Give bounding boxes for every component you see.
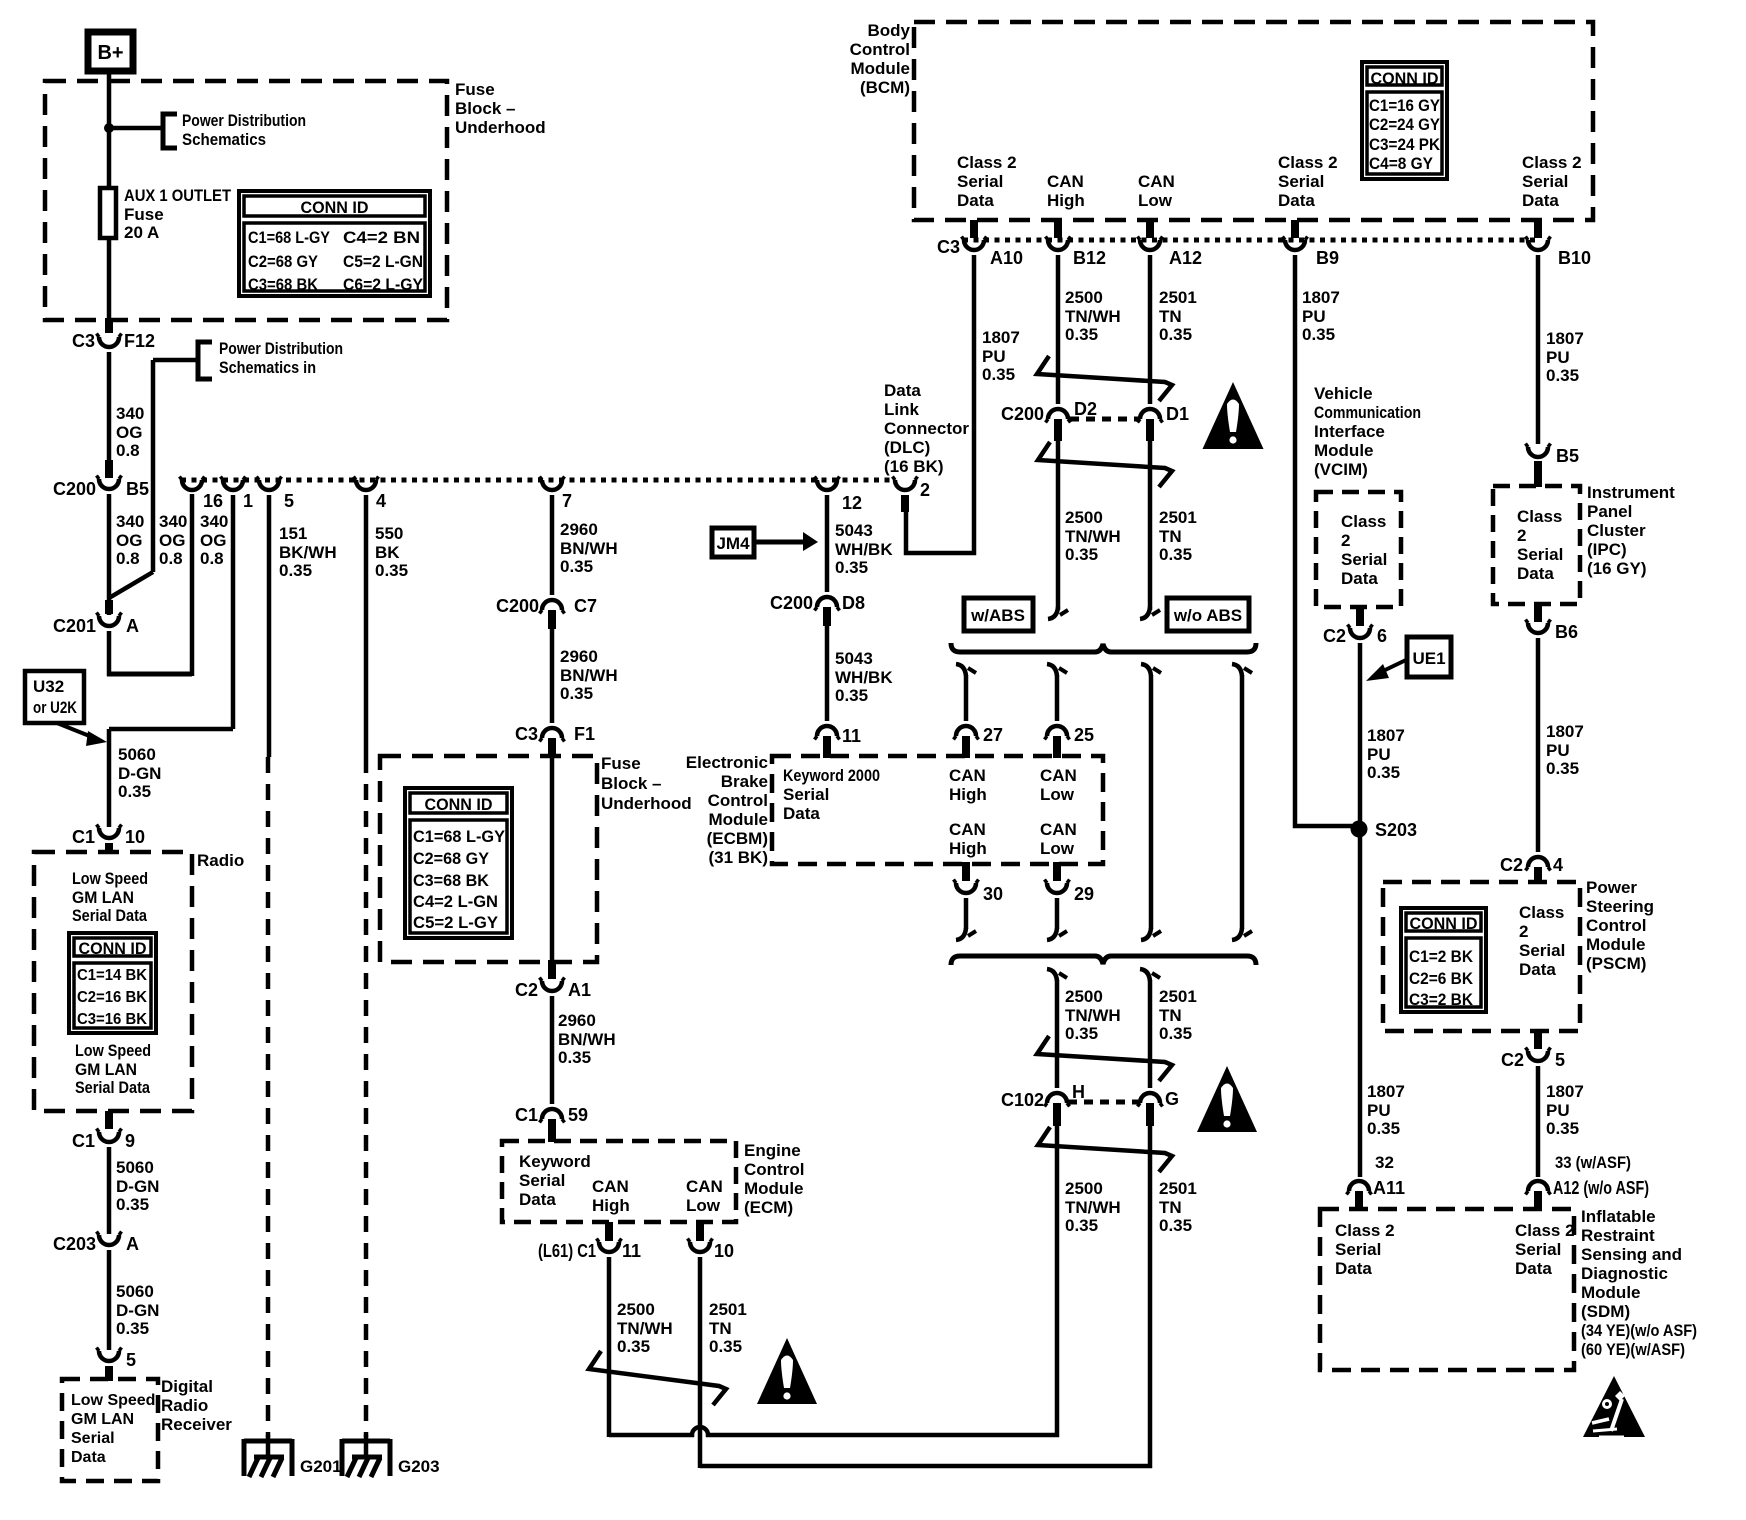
engine control module box (502, 1141, 736, 1222)
svg-text:Power Distribution: Power Distribution (182, 111, 306, 130)
w/ABS box (964, 598, 1033, 631)
wire to power distribution bracket (109, 126, 162, 131)
svg-text:0.35: 0.35 (1302, 325, 1335, 344)
svg-text:BN/WH: BN/WH (560, 666, 618, 685)
svg-text:High: High (949, 785, 987, 804)
svg-text:Diagnostic: Diagnostic (1581, 1264, 1668, 1283)
svg-text:Schematics in: Schematics in (219, 358, 316, 377)
svg-text:Body: Body (868, 21, 911, 40)
wire C1 9 to C203 (107, 1147, 112, 1234)
svg-text:Data: Data (1517, 564, 1554, 583)
svg-text:WH/BK: WH/BK (835, 540, 893, 559)
svg-text:CAN: CAN (1040, 820, 1077, 839)
svg-text:2960: 2960 (560, 647, 598, 666)
twisted pair crossover below C102 (1038, 1127, 1172, 1172)
BCM pin B10 (1534, 220, 1542, 238)
svg-text:C4=8 GY: C4=8 GY (1369, 155, 1433, 173)
svg-text:(IPC): (IPC) (1587, 540, 1627, 559)
svg-text:11: 11 (842, 726, 861, 746)
DLC pin 5 (259, 480, 279, 490)
svg-text:27: 27 (983, 725, 1003, 745)
svg-text:Data: Data (71, 1449, 106, 1466)
ground G203 (342, 1439, 390, 1444)
wire B+ to fuse (107, 71, 112, 190)
svg-text:Serial: Serial (71, 1430, 115, 1447)
svg-text:BN/WH: BN/WH (560, 539, 618, 558)
svg-text:0.35: 0.35 (116, 1319, 149, 1338)
svg-text:2500: 2500 (1065, 288, 1103, 307)
svg-text:C4=2 L-GN: C4=2 L-GN (413, 893, 498, 911)
svg-text:Data: Data (519, 1190, 556, 1209)
connector C200 B5 (99, 479, 119, 489)
svg-text:Module: Module (1581, 1283, 1641, 1302)
connector C3 F12 (99, 337, 119, 347)
svg-text:Data: Data (1515, 1259, 1552, 1278)
svg-text:Module: Module (1586, 935, 1646, 954)
ground G201 (244, 1439, 292, 1444)
svg-text:OG: OG (159, 531, 185, 550)
svg-text:1807: 1807 (1546, 1082, 1584, 1101)
svg-text:Digital: Digital (161, 1377, 213, 1396)
svg-text:0.8: 0.8 (116, 549, 140, 568)
svg-text:Power: Power (1586, 878, 1637, 897)
wire BCM B10 down (1536, 255, 1541, 444)
svg-text:B5: B5 (1556, 446, 1579, 466)
svg-text:OG: OG (116, 423, 142, 442)
svg-text:32: 32 (1375, 1153, 1394, 1172)
ECM pin 10 (696, 1222, 704, 1241)
svg-text:9: 9 (125, 1131, 135, 1151)
woABS bypass wire 1 (1141, 664, 1151, 676)
wire BCM B12 down (1056, 255, 1061, 404)
svg-text:0.35: 0.35 (375, 561, 408, 580)
svg-text:Module: Module (709, 810, 769, 829)
fuse block underhood box 2 (380, 756, 597, 962)
svg-text:PU: PU (982, 347, 1006, 366)
svg-text:C200: C200 (496, 596, 539, 616)
svg-text:Interface: Interface (1314, 422, 1385, 441)
wire DLC pin1 to radio C1 10 (231, 495, 236, 729)
svg-text:(ECBM): (ECBM) (707, 829, 768, 848)
svg-text:Fuse: Fuse (124, 205, 164, 224)
svg-text:2501: 2501 (1159, 1179, 1197, 1198)
svg-text:C2=6 BK: C2=6 BK (1409, 970, 1473, 988)
svg-text:BN/WH: BN/WH (558, 1030, 616, 1049)
connector C200 C7 (542, 600, 562, 610)
wire through fuse block 2 (550, 756, 555, 962)
svg-text:340: 340 (159, 512, 187, 531)
svg-text:GM LAN: GM LAN (75, 1060, 137, 1079)
svg-text:Data: Data (1519, 960, 1556, 979)
svg-text:Fuse: Fuse (601, 754, 641, 773)
DLC pin 7 (542, 480, 562, 490)
svg-text:CAN: CAN (1040, 766, 1077, 785)
svg-text:Instrument: Instrument (1587, 483, 1675, 502)
wire C2 6 down to S203 (1358, 643, 1363, 1177)
svg-text:w/ABS: w/ABS (970, 606, 1025, 625)
svg-text:H: H (1072, 1082, 1085, 1102)
svg-text:D2: D2 (1074, 399, 1097, 419)
ECBM pin 11 connector (817, 726, 837, 736)
svg-text:1807: 1807 (1367, 1082, 1405, 1101)
svg-text:Class 2: Class 2 (1515, 1221, 1575, 1240)
svg-text:C1=16 GY: C1=16 GY (1369, 97, 1440, 115)
svg-text:C1=68 L-GY: C1=68 L-GY (413, 828, 505, 846)
JM4 arrow (754, 540, 804, 545)
svg-text:G203: G203 (398, 1457, 440, 1476)
svg-text:Class: Class (1519, 903, 1564, 922)
wire C201 to DLC pin 16 riser (107, 631, 112, 676)
BCM pin B9 (1291, 220, 1299, 238)
svg-text:C200: C200 (53, 479, 96, 499)
svg-text:Low: Low (1138, 191, 1173, 210)
svg-text:5060: 5060 (118, 745, 156, 764)
twisted pair crossover below C200 D2 D1 (1038, 442, 1172, 487)
svg-text:High: High (949, 839, 987, 858)
svg-text:Steering: Steering (1586, 897, 1654, 916)
svg-text:5043: 5043 (835, 649, 873, 668)
svg-text:0.8: 0.8 (116, 441, 140, 460)
svg-text:A12: A12 (1169, 248, 1202, 268)
svg-text:Data: Data (1522, 191, 1559, 210)
svg-text:(31 BK): (31 BK) (708, 848, 768, 867)
svg-text:Keyword 2000: Keyword 2000 (783, 766, 880, 785)
warning triangle near ECM (757, 1338, 817, 1404)
radio out stub to C1 9 (105, 1111, 113, 1129)
svg-text:0.35: 0.35 (1367, 763, 1400, 782)
svg-text:BK: BK (375, 543, 400, 562)
twisted pair crossover above C102 (1037, 1036, 1172, 1081)
svg-text:TN/WH: TN/WH (1065, 1006, 1121, 1025)
svg-text:0.35: 0.35 (1065, 1216, 1098, 1235)
svg-text:2500: 2500 (1065, 1179, 1103, 1198)
wire DLC pin 12 down (825, 495, 830, 592)
DLC connector dotted bus (181, 478, 895, 483)
wire DLC pin 5 to G201 (267, 495, 272, 757)
svg-text:UE1: UE1 (1412, 649, 1445, 668)
svg-text:Serial: Serial (1517, 545, 1563, 564)
svg-text:0.8: 0.8 (159, 549, 183, 568)
svg-text:CAN: CAN (686, 1177, 723, 1196)
svg-text:(16 GY): (16 GY) (1587, 559, 1647, 578)
svg-text:2501: 2501 (1159, 987, 1197, 1006)
connector 5 digital radio receiver (99, 1351, 119, 1361)
svg-text:Electronic: Electronic (686, 753, 768, 772)
wire A1 to C1 59 (550, 996, 555, 1104)
svg-text:CAN: CAN (949, 820, 986, 839)
svg-text:Serial: Serial (519, 1171, 565, 1190)
svg-text:Serial Data: Serial Data (72, 906, 147, 925)
JM4 box (712, 528, 754, 557)
svg-text:Underhood: Underhood (601, 794, 692, 813)
svg-text:Data: Data (1341, 569, 1378, 588)
svg-text:2: 2 (1519, 922, 1528, 941)
svg-text:C200: C200 (770, 593, 813, 613)
IPC box (1493, 486, 1580, 604)
svg-text:0.35: 0.35 (1065, 545, 1098, 564)
BCM pin A12 (1146, 220, 1154, 238)
conn id table BCM (1362, 62, 1447, 179)
inflatable restraint SDM box (1320, 1209, 1574, 1370)
svg-text:PU: PU (1367, 1101, 1391, 1120)
wire ECM 11 down (607, 1257, 612, 1437)
svg-text:4: 4 (1553, 855, 1563, 875)
svg-text:Engine: Engine (744, 1141, 801, 1160)
svg-text:C3=16 BK: C3=16 BK (77, 1011, 147, 1028)
svg-text:CONN ID: CONN ID (1410, 914, 1478, 933)
BCM C3 dotted connector line (963, 238, 1540, 243)
warning triangle near C102 (1197, 1066, 1257, 1132)
svg-text:0.35: 0.35 (709, 1337, 742, 1356)
svg-text:Block –: Block – (455, 99, 515, 118)
svg-text:A: A (126, 616, 139, 636)
svg-text:2960: 2960 (558, 1011, 596, 1030)
connector C200 D8 (817, 597, 837, 607)
svg-text:TN/WH: TN/WH (1065, 307, 1121, 326)
svg-text:0.35: 0.35 (1546, 366, 1579, 385)
svg-text:A10: A10 (990, 248, 1023, 268)
svg-text:Control: Control (744, 1160, 804, 1179)
svg-text:Control: Control (850, 40, 910, 59)
svg-text:Module: Module (851, 59, 911, 78)
svg-text:Control: Control (1586, 916, 1646, 935)
svg-text:0.35: 0.35 (835, 558, 868, 577)
wire DLC pin 4 to G203 (364, 495, 369, 757)
connector C1 59 (542, 1109, 562, 1119)
svg-text:Class 2: Class 2 (1522, 153, 1582, 172)
svg-text:10: 10 (714, 1241, 734, 1261)
svg-text:0.35: 0.35 (1367, 1119, 1400, 1138)
svg-text:2501: 2501 (1159, 508, 1197, 527)
svg-text:0.35: 0.35 (1159, 545, 1192, 564)
svg-text:Class: Class (1517, 507, 1562, 526)
connector C2 A1 (548, 960, 556, 979)
wire fuse to C3 F12 (107, 238, 112, 325)
svg-text:(ECM): (ECM) (744, 1198, 793, 1217)
svg-text:0.35: 0.35 (1546, 759, 1579, 778)
svg-text:Serial: Serial (1335, 1240, 1381, 1259)
svg-text:PU: PU (1302, 307, 1326, 326)
svg-text:0.35: 0.35 (617, 1337, 650, 1356)
svg-text:0.35: 0.35 (1065, 325, 1098, 344)
UE1 arrow (1381, 659, 1408, 672)
conn id table PSCM (1401, 908, 1486, 1012)
svg-text:Receiver: Receiver (161, 1415, 232, 1434)
svg-text:Serial: Serial (1341, 550, 1387, 569)
svg-text:High: High (1047, 191, 1085, 210)
svg-text:GM LAN: GM LAN (71, 1411, 134, 1428)
svg-text:20 A: 20 A (124, 223, 159, 242)
svg-text:A11: A11 (1373, 1178, 1405, 1198)
wire BCM A10 to DLC pin 2 (901, 495, 909, 512)
wire below brace to C102 H (1047, 969, 1057, 981)
svg-text:Module: Module (1314, 441, 1374, 460)
conn id table fuse block 2 (405, 788, 512, 938)
wire C2 5 down to A12 (1536, 1066, 1541, 1177)
svg-text:CAN: CAN (1047, 172, 1084, 191)
svg-text:5: 5 (126, 1350, 136, 1370)
connector C1 10 radio (99, 828, 119, 838)
svg-text:550: 550 (375, 524, 403, 543)
svg-text:(BCM): (BCM) (860, 78, 910, 97)
svg-text:TN: TN (1159, 527, 1182, 546)
wire from bracket down to splice (153, 358, 198, 363)
svg-text:Inflatable: Inflatable (1581, 1207, 1656, 1226)
svg-text:4: 4 (376, 491, 386, 511)
conn id table radio (69, 933, 156, 1033)
svg-text:Connector: Connector (884, 419, 969, 438)
twisted pair crossover above C200 D2 D1 (1037, 356, 1172, 401)
splice S203 (1351, 821, 1368, 838)
svg-text:Cluster: Cluster (1587, 521, 1646, 540)
svg-text:Block –: Block – (601, 774, 661, 793)
junction node (104, 123, 114, 133)
bottom brace (951, 956, 1256, 965)
svg-text:1: 1 (243, 491, 253, 511)
woABS bypass wire 2 (1232, 664, 1242, 676)
svg-text:Serial: Serial (1515, 1240, 1561, 1259)
wABS CAN High branch upper (956, 664, 966, 676)
C200 dashed line D2-D1 (1070, 417, 1139, 422)
svg-text:C2=68 GY: C2=68 GY (248, 252, 319, 271)
svg-text:C1: C1 (515, 1105, 538, 1125)
svg-text:Brake: Brake (721, 772, 768, 791)
svg-text:B6: B6 (1555, 622, 1578, 642)
DLC pin 1 (223, 480, 243, 490)
svg-text:0.35: 0.35 (558, 1048, 591, 1067)
svg-text:Low Speed: Low Speed (71, 1392, 155, 1409)
svg-text:Low: Low (686, 1196, 721, 1215)
svg-text:Underhood: Underhood (455, 118, 546, 137)
connector D1 (1140, 409, 1160, 419)
svg-text:Keyword: Keyword (519, 1152, 591, 1171)
svg-text:C3: C3 (72, 331, 95, 351)
svg-text:Serial: Serial (783, 785, 829, 804)
svg-text:C5=2 L-GY: C5=2 L-GY (413, 914, 498, 932)
svg-text:C5=2 L-GN: C5=2 L-GN (343, 252, 423, 271)
svg-text:TN/WH: TN/WH (1065, 527, 1121, 546)
svg-text:GM LAN: GM LAN (72, 888, 134, 907)
wire C203 to pin 5 (107, 1250, 112, 1350)
svg-text:33 (w/ASF): 33 (w/ASF) (1555, 1153, 1631, 1172)
wire B6 to C2 4 (1536, 638, 1541, 852)
svg-text:w/o ABS: w/o ABS (1173, 606, 1242, 625)
svg-text:(L61) C1: (L61) C1 (538, 1241, 596, 1261)
svg-text:Class 2: Class 2 (1278, 153, 1338, 172)
DLC pin 16 (182, 480, 202, 490)
svg-text:C2: C2 (1323, 626, 1346, 646)
svg-text:PU: PU (1546, 741, 1570, 760)
svg-text:C7: C7 (574, 596, 597, 616)
svg-text:1807: 1807 (982, 328, 1020, 347)
svg-text:C102: C102 (1001, 1090, 1044, 1110)
svg-text:0.35: 0.35 (1159, 1024, 1192, 1043)
svg-text:C6=2 L-GY: C6=2 L-GY (343, 275, 424, 294)
svg-text:BK/WH: BK/WH (279, 543, 337, 562)
power distribution schematics in bracket (198, 342, 212, 379)
svg-text:TN: TN (1159, 1198, 1182, 1217)
connector C102 H (1047, 1093, 1067, 1103)
svg-text:G: G (1165, 1089, 1179, 1109)
svg-text:151: 151 (279, 524, 307, 543)
svg-text:Link: Link (884, 400, 919, 419)
svg-text:0.35: 0.35 (560, 684, 593, 703)
svg-text:C1=14 BK: C1=14 BK (77, 967, 147, 984)
svg-text:2960: 2960 (560, 520, 598, 539)
connector C203 A (99, 1235, 119, 1245)
svg-text:CONN ID: CONN ID (425, 795, 493, 814)
wire run ECM11 to C102 H with hop (609, 1126, 1057, 1435)
svg-text:2501: 2501 (1159, 288, 1197, 307)
svg-text:OG: OG (116, 531, 142, 550)
svg-text:B10: B10 (1558, 248, 1591, 268)
power distribution schematics bracket (163, 114, 177, 148)
svg-text:PU: PU (1546, 1101, 1570, 1120)
U32 or U2K box (25, 671, 84, 723)
svg-text:C201: C201 (53, 616, 96, 636)
svg-text:C2=24 GY: C2=24 GY (1369, 116, 1440, 134)
wires down to ABS brace (1056, 441, 1061, 610)
ECBM pin 29 (1053, 862, 1061, 881)
svg-text:B+: B+ (97, 42, 123, 64)
UE1 box (1407, 637, 1451, 677)
wire D8 to ECBM 11 (825, 626, 830, 721)
power steering control module box (1383, 882, 1580, 1031)
svg-text:C3=68 BK: C3=68 BK (248, 275, 319, 294)
wire DLC pin 7 down (550, 495, 555, 595)
wire run ECM10 to C102 G (700, 1126, 1150, 1466)
connector C201 A (99, 616, 119, 626)
svg-text:30: 30 (983, 884, 1003, 904)
radio module box (34, 852, 192, 1111)
svg-text:or U2K: or U2K (33, 698, 78, 717)
wire below brace to C102 G (1140, 969, 1150, 981)
svg-text:340: 340 (200, 512, 228, 531)
svg-text:2: 2 (920, 480, 930, 500)
fuse AUX 1 OUTLET 20A (107, 190, 112, 240)
svg-text:B12: B12 (1073, 248, 1106, 268)
svg-text:Class 2: Class 2 (957, 153, 1017, 172)
svg-text:0.35: 0.35 (560, 557, 593, 576)
svg-text:5043: 5043 (835, 521, 873, 540)
svg-text:D8: D8 (842, 593, 865, 613)
svg-text:11: 11 (622, 1241, 641, 1261)
svg-text:7: 7 (562, 491, 572, 511)
wire B5 to C201 A (107, 494, 112, 615)
svg-text:2500: 2500 (1065, 987, 1103, 1006)
wire ECM 10 down (698, 1257, 703, 1468)
svg-text:Fuse: Fuse (455, 80, 495, 99)
svg-text:C1: C1 (72, 827, 95, 847)
DLC pin 2 (895, 480, 915, 490)
svg-text:0.35: 0.35 (1159, 325, 1192, 344)
svg-text:A1: A1 (568, 980, 591, 1000)
wire BCM A12 down (1148, 255, 1153, 404)
svg-text:0.35: 0.35 (1065, 1024, 1098, 1043)
svg-text:G201: G201 (300, 1457, 342, 1476)
connector C3 F1 (542, 728, 562, 738)
svg-text:10: 10 (125, 827, 145, 847)
svg-text:A: A (126, 1234, 139, 1254)
connector B6 (1534, 604, 1542, 622)
twisted pair crossover at ECM (589, 1351, 726, 1405)
svg-text:25: 25 (1074, 725, 1094, 745)
svg-text:PU: PU (1546, 348, 1570, 367)
svg-text:Low: Low (1040, 839, 1075, 858)
connector A11 SDM (1349, 1181, 1369, 1191)
connector C2 6 (1356, 607, 1364, 626)
wire F12 to C200 B5 (107, 352, 112, 465)
